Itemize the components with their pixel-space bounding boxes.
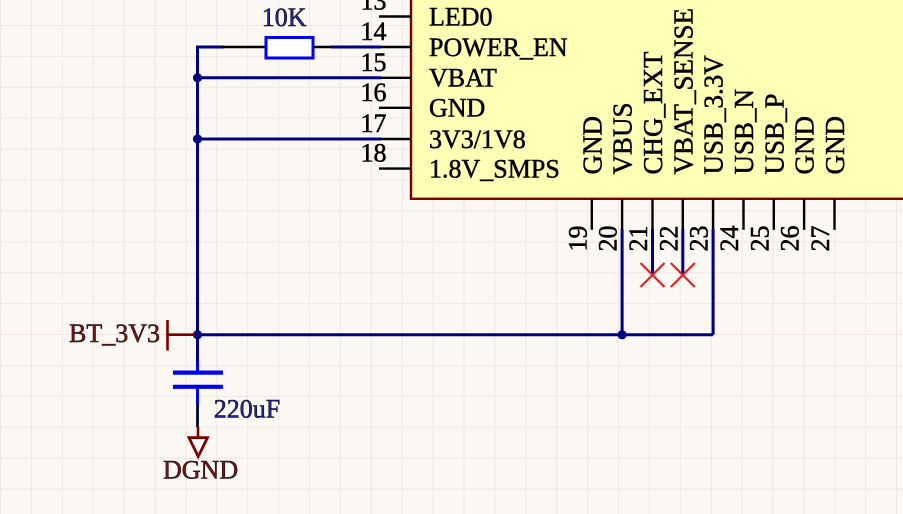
pin 24 stub bbox=[742, 199, 744, 230]
power port BT_3V3 bar bbox=[166, 320, 169, 351]
svg-text:13: 13 bbox=[361, 0, 387, 16]
svg-text:15: 15 bbox=[361, 48, 387, 77]
IC U1 body bbox=[411, 0, 903, 199]
svg-text:17: 17 bbox=[361, 109, 387, 138]
svg-text:27: 27 bbox=[806, 226, 835, 252]
wire to pin 17 3V3/1V8 bbox=[198, 138, 382, 141]
svg-text:24: 24 bbox=[715, 226, 744, 252]
wire pin 22 VBAT_SENSE stub bbox=[681, 229, 684, 275]
pin 25 stub bbox=[773, 199, 775, 230]
pin 22 stub bbox=[682, 199, 684, 230]
svg-text:20: 20 bbox=[594, 226, 623, 252]
pin 26 stub bbox=[803, 199, 805, 230]
pin 19 stub bbox=[591, 199, 593, 230]
wire to pin 15 VBAT bbox=[198, 76, 382, 79]
wire pin 21 CHG_EXT stub bbox=[651, 229, 654, 275]
svg-text:GND: GND bbox=[577, 116, 607, 175]
junction node row17 bbox=[193, 134, 202, 143]
resistor R1 left pin bbox=[222, 46, 266, 49]
junction node VBUS bbox=[618, 330, 627, 339]
svg-text:POWER_EN: POWER_EN bbox=[429, 33, 568, 62]
capacitor C1 bottom pin bbox=[196, 389, 199, 405]
pin 14 stub bbox=[379, 46, 411, 48]
no-ERC marker X pin 21 bbox=[641, 263, 665, 287]
svg-text:GND: GND bbox=[429, 94, 485, 123]
svg-text:19: 19 bbox=[563, 226, 592, 252]
capacitor C1 top plate bbox=[173, 371, 223, 375]
pin 21 stub bbox=[651, 199, 653, 230]
svg-text:BT_3V3: BT_3V3 bbox=[69, 319, 160, 348]
svg-text:USB_N: USB_N bbox=[729, 89, 759, 175]
svg-text:23: 23 bbox=[685, 226, 714, 252]
svg-text:LED0: LED0 bbox=[429, 2, 493, 31]
svg-text:VBAT: VBAT bbox=[429, 64, 497, 93]
pin 23 stub bbox=[712, 199, 714, 230]
svg-text:USB_P: USB_P bbox=[759, 93, 789, 174]
svg-text:1.8V_SMPS: 1.8V_SMPS bbox=[429, 154, 560, 183]
wire pin 20 VBUS drop bbox=[621, 229, 624, 335]
pin 16 stub bbox=[379, 107, 411, 109]
pin 13 stub bbox=[379, 15, 411, 17]
svg-text:22: 22 bbox=[654, 226, 683, 252]
junction node row15 bbox=[193, 73, 202, 82]
svg-text:14: 14 bbox=[361, 17, 387, 46]
junction node at port bbox=[193, 330, 202, 339]
power port BT_3V3 lead bbox=[168, 333, 196, 336]
svg-text:DGND: DGND bbox=[163, 456, 238, 485]
wire pin 23 USB_3.3V drop bbox=[712, 229, 715, 335]
svg-text:CHG_EXT: CHG_EXT bbox=[638, 51, 668, 174]
no-ERC marker X pin 22 bbox=[671, 263, 695, 287]
capacitor C1 top pin bbox=[196, 361, 199, 372]
pin 20 stub bbox=[621, 199, 623, 230]
wire resistor to pin 14 bbox=[331, 46, 381, 49]
wire vertical VBAT net bbox=[196, 46, 199, 335]
resistor R1 right pin bbox=[313, 46, 331, 49]
svg-text:16: 16 bbox=[361, 78, 387, 107]
svg-text:18: 18 bbox=[361, 139, 387, 168]
svg-text:26: 26 bbox=[776, 226, 805, 252]
resistor R1 body bbox=[266, 38, 313, 59]
power port DGND triangle bbox=[189, 438, 208, 457]
svg-text:3V3/1V8: 3V3/1V8 bbox=[429, 125, 526, 154]
pin 17 stub bbox=[379, 138, 411, 140]
capacitor C1 bottom plate bbox=[173, 385, 223, 389]
wire BT_3V3 horizontal run bbox=[193, 333, 713, 336]
svg-text:GND: GND bbox=[790, 116, 820, 175]
power port DGND stem bbox=[197, 427, 200, 439]
svg-text:USB_3.3V: USB_3.3V bbox=[699, 55, 729, 175]
svg-text:220uF: 220uF bbox=[214, 394, 280, 423]
pin 18 stub bbox=[379, 167, 411, 169]
svg-text:VBUS: VBUS bbox=[608, 102, 638, 174]
wire junction to capacitor C1 bbox=[196, 335, 199, 361]
svg-text:GND: GND bbox=[820, 116, 850, 175]
svg-text:25: 25 bbox=[745, 226, 774, 252]
svg-text:10K: 10K bbox=[262, 3, 307, 32]
wire corner to resistor R1 bbox=[198, 46, 225, 49]
svg-text:21: 21 bbox=[624, 226, 653, 252]
wire capacitor to ground bbox=[196, 405, 199, 428]
pin 15 stub bbox=[379, 77, 411, 79]
svg-text:VBAT_SENSE: VBAT_SENSE bbox=[668, 8, 698, 175]
pin 27 stub bbox=[833, 199, 835, 230]
